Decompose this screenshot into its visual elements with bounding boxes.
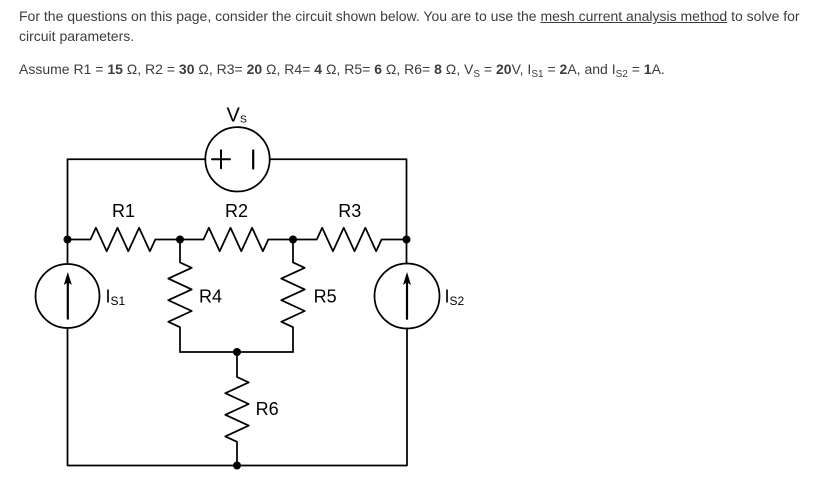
- svg-text:VS: VS: [227, 105, 247, 127]
- svg-text:R5: R5: [314, 287, 337, 307]
- svg-text:R1: R1: [112, 201, 135, 221]
- svg-text:IS1: IS1: [106, 286, 126, 308]
- svg-text:R4: R4: [199, 287, 222, 307]
- svg-text:R2: R2: [225, 201, 248, 221]
- svg-text:IS2: IS2: [445, 286, 465, 308]
- svg-text:R3: R3: [338, 201, 361, 221]
- svg-text:R6: R6: [256, 399, 279, 419]
